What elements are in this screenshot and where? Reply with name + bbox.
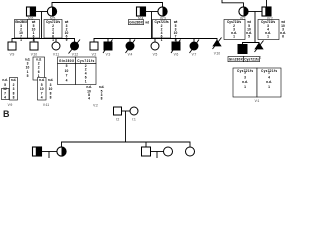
svg-text:V:2: V:2	[93, 104, 98, 108]
svg-text:V:9: V:9	[10, 52, 15, 56]
genotype label V:2C Gln280X Cys721fs	[228, 57, 260, 62]
mating line couple A	[36, 11, 48, 13]
parent link to ci3	[222, 0, 244, 7]
descent V:11	[55, 39, 57, 43]
individual IV:3 ci2 carrier	[158, 7, 167, 16]
parent link to sq3	[266, 0, 268, 7]
individual V:4 affected deceased	[126, 40, 136, 54]
haplotype box ci2 Cys721fs	[153, 20, 179, 42]
sibship line family A	[12, 39, 75, 43]
individual IV:6 sq1 carrier	[27, 7, 36, 16]
individual V:10	[30, 42, 38, 50]
individual IV:4 sq2 carrier	[137, 7, 146, 16]
descent B II left	[48, 152, 50, 159]
svg-text:Gln280X: Gln280X	[229, 58, 244, 62]
individual B II:1 spouse affected	[33, 147, 42, 156]
svg-text:Gln280X: Gln280X	[129, 21, 143, 25]
svg-text:n.d.: n.d.	[39, 78, 44, 82]
individual IV:2 sq3 carrier	[262, 7, 271, 16]
svg-text:V:11: V:11	[53, 52, 59, 56]
individual B II:2 spouse	[164, 147, 173, 156]
svg-text:V:1: V:1	[255, 99, 260, 103]
descent B II right	[156, 152, 158, 159]
descent V:4	[129, 39, 131, 43]
svg-text:538: 538	[101, 89, 103, 100]
svg-text:Gln280X: Gln280X	[59, 59, 75, 63]
svg-text:22461: 22461	[85, 64, 87, 84]
svg-text:V:10: V:10	[31, 52, 38, 56]
descent B II:2	[145, 142, 147, 147]
svg-text:Cys721fs: Cys721fs	[77, 59, 94, 63]
haplotype box V:1	[233, 68, 281, 97]
haplotype box V:12	[58, 64, 97, 85]
individual B II:2	[142, 147, 151, 156]
individual V:9	[8, 42, 16, 50]
individual V:5	[151, 42, 159, 50]
svg-text:22461: 22461	[52, 24, 54, 42]
svg-text:V:3: V:3	[106, 52, 111, 56]
sibling line gen I (ci1 to ci2)	[52, 3, 163, 8]
haplotype box ci3 Cys721fs	[224, 20, 252, 40]
descent line B I	[125, 111, 127, 142]
svg-text:V:12: V:12	[72, 52, 79, 56]
svg-text:n.d.: n.d.	[48, 78, 53, 82]
svg-text:22461: 22461	[161, 24, 163, 42]
svg-text:V:5: V:5	[153, 52, 158, 56]
descent V:7	[193, 39, 195, 43]
descent line couple B	[151, 12, 153, 39]
individual IV:1 ci3 carrier	[239, 7, 248, 16]
individual B II carrier circle	[57, 147, 66, 156]
individual V:3 affected deceased	[103, 40, 113, 54]
svg-text:V:2: V:2	[92, 52, 97, 56]
haplotype columns V:2	[86, 85, 104, 101]
descent line couple C	[254, 12, 256, 43]
haplotype box ci1 Cys721fs	[44, 20, 69, 42]
mating line B II right	[151, 151, 164, 153]
individual V:8 miscarriage deceased	[213, 38, 222, 50]
descent line couple A	[41, 12, 43, 39]
haplotype box V:10	[25, 57, 45, 80]
svg-text:n.d.: n.d.	[11, 78, 16, 82]
individual IV:5 ci1 carrier	[47, 7, 56, 16]
mating line B II left	[42, 151, 58, 153]
individual V:11	[52, 42, 60, 50]
haplotype box sq1 Gln280X	[15, 20, 40, 42]
mating line couple B	[146, 11, 159, 13]
svg-text:V:4: V:4	[128, 52, 133, 56]
descent V:5	[154, 39, 156, 43]
individual V:12 affected deceased	[69, 40, 81, 54]
descent V:3	[107, 39, 109, 43]
haplotype box V:9	[2, 78, 18, 101]
svg-text:B: B	[3, 109, 10, 119]
mating line couple C	[248, 11, 262, 13]
individual V:7 affected deceased	[190, 40, 200, 54]
svg-text:V:11: V:11	[43, 103, 49, 107]
svg-text:2261: 2261	[38, 61, 40, 78]
svg-text:V:7: V:7	[192, 52, 197, 56]
individual V:1C miscarriage deceased	[255, 41, 264, 53]
svg-text:I:1: I:1	[132, 118, 136, 122]
individual V:6 affected deceased	[171, 40, 181, 54]
individual V:2C affected	[238, 45, 247, 54]
haplotype box V:11	[38, 78, 54, 101]
individual B I:1	[130, 107, 138, 115]
descent V:10	[33, 39, 35, 43]
svg-text:V:10: V:10	[214, 51, 221, 55]
individual B I:2	[114, 107, 122, 115]
svg-text:2388: 2388	[13, 83, 15, 100]
svg-text:Cys721fs: Cys721fs	[244, 58, 259, 62]
haplotype box sq3 Cys721fs	[258, 20, 286, 40]
haplotype label sq2 Gln280X wt	[129, 20, 150, 25]
genotype label V:12 Gln280X Cys721fs	[58, 57, 97, 64]
sibship line family B	[94, 39, 217, 43]
descent V:6	[175, 39, 177, 43]
svg-text:V:6: V:6	[174, 52, 179, 56]
svg-text:n.d.: n.d.	[2, 78, 7, 82]
sibship line family C	[243, 43, 260, 45]
individual B II:3	[186, 147, 195, 156]
sibship line B II	[62, 142, 191, 147]
svg-text:V:9: V:9	[8, 103, 13, 107]
mating line B I	[122, 110, 131, 112]
svg-text:I:2: I:2	[116, 118, 120, 122]
individual V:2	[90, 42, 98, 50]
